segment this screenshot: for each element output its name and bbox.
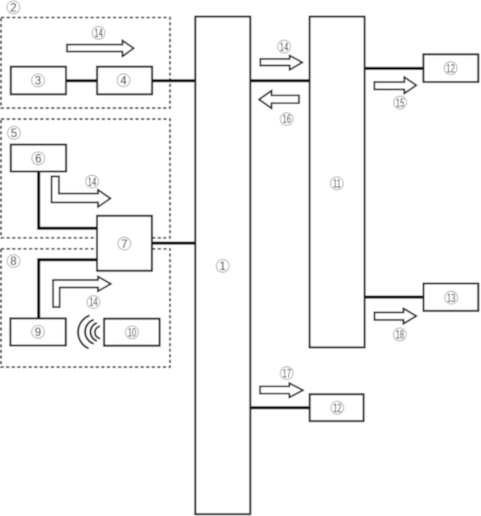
wire block7-block1: [152, 242, 196, 245]
block 12 top: [423, 54, 478, 82]
svg-text:14: 14: [94, 28, 103, 41]
svg-text:14: 14: [89, 297, 98, 310]
circled label 1: [216, 260, 229, 274]
svg-text:11: 11: [333, 178, 341, 191]
bent flow arrow 14 in box 5: [52, 176, 111, 207]
block 12 bottom: [310, 394, 364, 421]
svg-text:15: 15: [396, 97, 404, 110]
wire block11-block12top: [364, 67, 424, 70]
dashed group box 5: [1, 119, 170, 238]
circled label 12 top: [444, 62, 457, 76]
circled label 14 in box 8: [87, 296, 100, 310]
svg-text:4: 4: [120, 75, 127, 87]
block 11 (tall box right): [310, 17, 365, 348]
flow arrow 17: [260, 383, 303, 397]
circled label 8: [7, 255, 20, 269]
circled label 2: [7, 1, 20, 15]
svg-text:18: 18: [396, 329, 404, 342]
block 9: [10, 318, 65, 345]
wireless signal arcs between 9 and 10: [78, 316, 99, 349]
circled label 18: [393, 328, 406, 342]
block 4: [97, 67, 152, 95]
dashed group box 8: [1, 249, 170, 367]
block 13: [424, 284, 479, 311]
svg-text:12: 12: [446, 63, 454, 76]
circled label 17: [280, 367, 293, 381]
svg-text:2: 2: [10, 3, 16, 15]
circled label 11: [331, 177, 344, 191]
wire block1-block12bottom: [250, 406, 310, 409]
flow arrow 16 (leftwards): [259, 91, 299, 109]
bent flow arrow 14 in box 8: [53, 277, 111, 308]
svg-text:14: 14: [88, 176, 97, 189]
wire block9-block7: [39, 260, 98, 319]
circled label 14 between 1 and 11: [278, 40, 291, 54]
circled label 5: [7, 126, 20, 140]
block 10: [104, 319, 160, 346]
wire block3-block4: [66, 79, 97, 82]
svg-text:7: 7: [121, 239, 127, 251]
svg-text:3: 3: [35, 76, 41, 88]
svg-text:10: 10: [128, 327, 137, 340]
svg-text:16: 16: [282, 114, 290, 127]
svg-text:1: 1: [219, 261, 225, 273]
flow arrow 18: [375, 309, 417, 324]
circled label 16: [280, 113, 293, 127]
svg-text:14: 14: [280, 41, 289, 54]
svg-text:8: 8: [10, 256, 16, 268]
block 7: [97, 216, 152, 271]
svg-text:12: 12: [333, 403, 341, 416]
circled label 14 in box 2: [92, 26, 105, 40]
svg-text:17: 17: [282, 368, 290, 381]
wire block11-block13: [364, 296, 424, 299]
block 3: [11, 67, 66, 95]
svg-text:5: 5: [11, 128, 17, 140]
wire block4-block1: [152, 79, 196, 82]
wire block1-block11: [250, 79, 310, 82]
circled label 13: [445, 291, 458, 305]
circled label 14 in box 5: [86, 175, 99, 189]
svg-text:13: 13: [447, 292, 455, 305]
flow arrow 14 in box 2: [67, 41, 134, 57]
svg-text:6: 6: [35, 154, 41, 166]
flow arrow 15: [374, 77, 416, 93]
block 1 (main tall box): [195, 17, 250, 515]
block 6: [11, 145, 66, 172]
circled label 9: [32, 325, 45, 339]
circled label 3: [32, 74, 45, 88]
flow arrow 14 between 1 and 11: [260, 56, 302, 70]
dashed group box 2: [1, 18, 170, 109]
circled label 10: [125, 326, 138, 340]
wire block6-block7: [39, 170, 98, 228]
circled label 4: [117, 74, 130, 88]
circled label 12 bottom: [331, 401, 344, 415]
svg-text:9: 9: [35, 327, 41, 339]
circled label 6: [32, 152, 45, 166]
circled label 7: [118, 237, 131, 251]
circled label 15: [394, 96, 407, 110]
